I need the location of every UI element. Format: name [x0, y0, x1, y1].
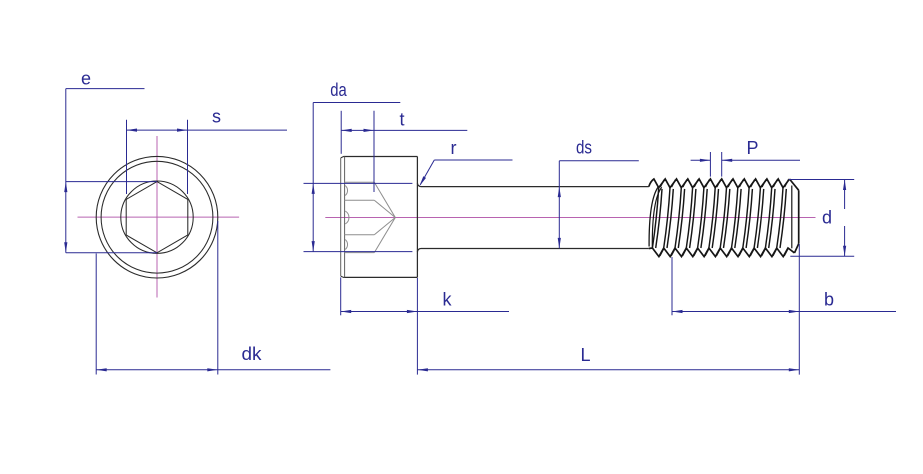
thread bottom crest inner line 3	[683, 249, 687, 256]
dim k: arrow right	[407, 310, 418, 313]
dim ds: label shelf line	[559, 160, 639, 162]
head bottom edge	[344, 276, 418, 278]
dim da: extension line bottom	[304, 251, 413, 253]
thread bottom crest inner line 12	[784, 249, 788, 256]
thread flank pair 5	[698, 188, 704, 248]
thread bottom crest inner line 6	[716, 249, 720, 256]
thread top crest inner line 9	[751, 180, 755, 188]
thread flank pair 7	[720, 188, 726, 248]
thread top crest inner line 5	[706, 180, 710, 188]
thread flank pair 3	[675, 188, 681, 248]
head left face outer line	[340, 158, 342, 276]
dim L: arrow left	[417, 368, 428, 371]
dim s: arrow right	[177, 129, 188, 132]
dim L: arrow right	[789, 368, 800, 371]
centerline vertical (left view)	[156, 136, 158, 298]
thread top crest inner line 6	[717, 180, 721, 188]
svg-text:dk: dk	[242, 344, 263, 364]
thread top crest inner line 4	[694, 180, 698, 188]
thread top crest zigzag	[649, 179, 790, 188]
shank bottom edge with fillet	[417, 249, 648, 252]
dim d: arrow down	[843, 246, 846, 257]
dim dk: arrow right	[207, 368, 218, 371]
dim P: leader line left	[691, 159, 711, 161]
dim b: dimension line	[672, 311, 896, 313]
head bottom-left chamfer	[341, 276, 344, 277]
dim da: dimension line vertical	[312, 103, 314, 252]
thread flank pair 11	[765, 188, 771, 248]
svg-text:ds: ds	[576, 138, 592, 158]
dim t: arrow right	[364, 129, 375, 132]
dim ds: arrow down	[558, 238, 561, 249]
dim s: dimension line	[127, 129, 288, 131]
dim t: dimension line	[341, 129, 467, 131]
dim da: arrow down	[312, 241, 315, 252]
thread top crest inner line 11	[773, 180, 777, 188]
dim k: arrow left	[341, 310, 352, 313]
head left face inner line	[344, 157, 346, 278]
svg-text:k: k	[443, 290, 453, 310]
thread bottom crest inner line 8	[739, 249, 743, 256]
dim e: label shelf line	[66, 88, 145, 90]
socket flat line bottom	[345, 234, 375, 236]
dim e: extension line bottom	[66, 252, 157, 254]
thread end face	[798, 190, 800, 243]
dim t: arrow left	[341, 129, 352, 132]
socket chamfer arc bottom	[345, 240, 347, 250]
dim dk: arrow left	[96, 368, 107, 371]
svg-text:t: t	[399, 110, 404, 130]
leader r: horizontal line	[434, 159, 512, 161]
dim b: arrow right	[789, 310, 800, 313]
centerline horizontal (left view)	[78, 216, 240, 218]
socket cone lower inner	[374, 218, 395, 235]
dim s: arrow left	[127, 129, 138, 132]
socket cone lower outer	[374, 218, 395, 253]
dim dk: extension line left	[95, 254, 97, 375]
dim da: extension line top	[304, 182, 413, 184]
dim da: arrow up	[312, 183, 315, 194]
svg-text:L: L	[580, 345, 590, 365]
thread top crest inner line 10	[762, 180, 766, 188]
dim dk: extension line right	[217, 221, 219, 375]
thread flank pair 12	[777, 188, 783, 248]
thread end chamfer bottom	[795, 244, 799, 253]
dim P: extension line left	[709, 152, 711, 177]
thread bottom crest inner line 5	[705, 249, 709, 256]
thread flank pair 1	[652, 188, 658, 248]
thread top crest inner line 12	[785, 180, 789, 188]
dim e: arrow down	[64, 242, 67, 253]
head top-left chamfer	[341, 157, 344, 158]
socket cone upper inner	[374, 200, 395, 217]
svg-text:e: e	[81, 69, 91, 89]
dim L: dimension line	[417, 369, 799, 371]
svg-text:b: b	[824, 290, 834, 310]
thread bottom crest inner line 2	[671, 249, 675, 256]
leader r: arrowhead	[419, 176, 426, 186]
thread chamfer circle line	[791, 186, 793, 249]
dim ds: arrow up	[558, 187, 561, 198]
thread flank pair 2	[664, 188, 670, 248]
thread flank pair 8	[732, 188, 738, 248]
socket chamfer arc mid	[345, 211, 349, 224]
thread top crest inner line 8	[739, 180, 743, 188]
dim P: arrow pointing left	[722, 159, 733, 162]
dim s: extension line left	[126, 120, 128, 194]
head right face	[416, 157, 418, 278]
thread flank pair 10	[754, 188, 760, 248]
dim da: label shelf line	[313, 102, 400, 104]
thread top crest inner line 7	[728, 180, 732, 188]
thread flank pair 6	[709, 188, 715, 248]
dim t: extension line right	[373, 111, 375, 192]
thread flank pair 4	[686, 188, 692, 248]
thread bottom crest inner line 4	[694, 249, 698, 256]
shank top edge with fillet	[417, 183, 648, 186]
dim P: arrow pointing right	[700, 159, 711, 162]
dim t: extension line left	[340, 111, 342, 154]
svg-text:d: d	[822, 208, 832, 228]
socket circle	[121, 181, 193, 253]
socket corner line bottom	[345, 252, 375, 254]
leader r: slanted line	[420, 160, 434, 185]
thread bottom crest inner line 1	[660, 249, 664, 256]
thread bottom crest inner line 7	[728, 249, 732, 256]
dim b: arrow left	[672, 310, 683, 313]
thread top crest inner line 2	[672, 180, 676, 188]
svg-text:r: r	[451, 138, 457, 158]
thread top crest inner line 1	[660, 180, 664, 188]
dim b: extension line left	[671, 257, 673, 315]
socket cone upper outer	[374, 182, 395, 217]
socket corner line top	[345, 181, 375, 183]
thread runout curve 1	[649, 187, 658, 247]
thread top crest inner line 3	[683, 180, 687, 188]
svg-text:da: da	[330, 80, 347, 100]
dim e: dimension line vertical	[65, 89, 67, 253]
thread bottom crest inner line 9	[750, 249, 754, 256]
dim d: arrow up	[843, 180, 846, 191]
dim s: extension line right	[187, 120, 189, 194]
dim L: extension line left	[416, 278, 418, 375]
dim d: extension line top	[789, 179, 854, 181]
head outer circle (dk)	[96, 156, 218, 278]
head top edge	[344, 156, 418, 158]
dim d: extension line bottom	[790, 255, 854, 257]
thread bottom crest inner line 11	[773, 249, 777, 256]
thread end chamfer top	[790, 179, 799, 190]
dim L: extension line right	[798, 244, 800, 375]
dim k: extension line left	[340, 277, 342, 315]
dim e: arrow up	[64, 182, 67, 193]
socket chamfer arc top	[345, 186, 347, 196]
thread bottom crest inner line 10	[762, 249, 766, 256]
thread runout curve 2	[652, 187, 661, 247]
svg-text:s: s	[212, 107, 221, 127]
dim k: dimension line	[341, 311, 509, 313]
dim P: extension line right	[721, 152, 723, 177]
dim P: leader line right	[722, 159, 800, 161]
dim d: dimension line upper	[844, 180, 846, 210]
svg-text:P: P	[746, 138, 758, 158]
socket flat line top	[345, 199, 375, 201]
thread flank pair 9	[743, 188, 749, 248]
head chamfer circle	[101, 161, 213, 273]
thread bottom crest zigzag	[649, 248, 795, 257]
dim e: extension line top	[66, 181, 157, 183]
dim dk: dimension line	[96, 369, 330, 371]
centerline horizontal (side view)	[325, 217, 815, 219]
dim d: dimension line lower	[844, 226, 846, 256]
dim ds: dimension line vertical	[558, 161, 560, 249]
hex socket (front view)	[126, 182, 188, 253]
